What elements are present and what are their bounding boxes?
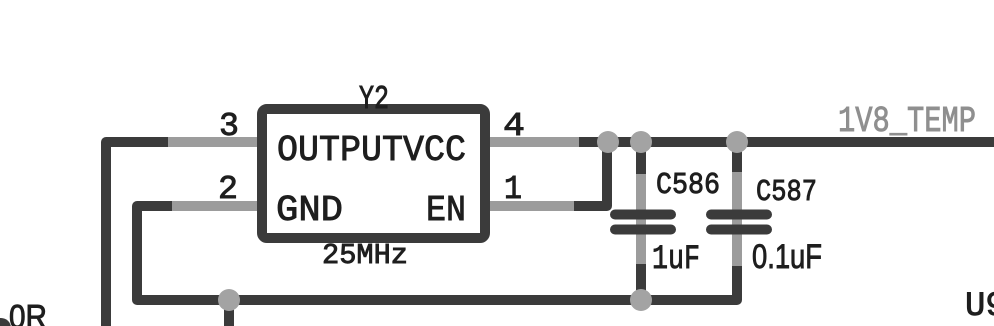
svg-text:C587: C587	[756, 175, 817, 210]
svg-text:C586: C586	[656, 168, 720, 203]
svg-text:3: 3	[219, 108, 239, 145]
svg-text:1V8_TEMP: 1V8_TEMP	[838, 101, 976, 142]
svg-text:25MHz: 25MHz	[322, 239, 408, 272]
svg-text:2: 2	[218, 171, 238, 208]
svg-text:EN: EN	[426, 190, 466, 231]
svg-text:Y2: Y2	[359, 81, 389, 118]
svg-text:OUTPUTVCC: OUTPUTVCC	[277, 130, 466, 171]
svg-text:1: 1	[504, 171, 522, 208]
svg-text:1uF: 1uF	[652, 241, 700, 279]
svg-text:0R: 0R	[9, 298, 47, 326]
svg-text:0.1uF: 0.1uF	[752, 238, 822, 276]
svg-text:4: 4	[503, 108, 525, 145]
svg-text:U9: U9	[965, 288, 994, 326]
svg-text:GND: GND	[276, 190, 343, 231]
